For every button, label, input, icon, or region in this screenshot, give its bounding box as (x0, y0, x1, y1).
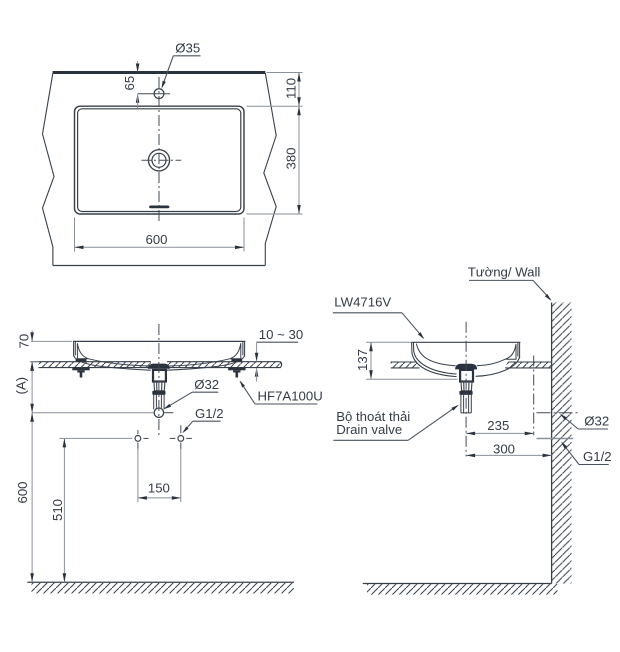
svg-text:110: 110 (284, 78, 299, 99)
svg-text:600: 600 (145, 232, 167, 247)
wall supply mark G1/2 (537, 438, 574, 440)
side view floor hatch (367, 584, 558, 595)
front view counter top line (30, 361, 280, 363)
side view faucet centerline (533, 356, 535, 436)
label Ø32 (front) leader arrow (162, 404, 171, 411)
svg-text:Ø32: Ø32 (194, 377, 219, 392)
svg-text:G1/2: G1/2 (195, 406, 224, 421)
front view basin left rim end (74, 341, 76, 356)
label HF7A100U text (258, 389, 323, 404)
dimension 600 arrow bottom (front view) (30, 573, 34, 582)
dimension 137 arrow bottom (369, 370, 373, 379)
dimension 65 arrow at counter edge (136, 64, 140, 73)
dimension 150 right extension (180, 448, 182, 502)
dimension 70 tail below (31, 362, 33, 372)
side view basin inner surface left (416, 344, 455, 366)
vertical centerline (top view) (158, 77, 160, 222)
dimension text 235 (487, 418, 509, 433)
front view basin rim top line (73, 340, 245, 342)
dimension 10 ~ 30 arrow top (255, 353, 259, 362)
svg-text:137: 137 (355, 349, 370, 371)
svg-text:Ø32: Ø32 (584, 414, 609, 429)
dimension 380 arrow top (297, 106, 301, 115)
dimension 600 line (top view) (75, 246, 245, 248)
front view left supply hole G1/2 (135, 430, 149, 449)
side view basin right pocket (505, 344, 516, 359)
front view basin right rim end (243, 341, 245, 356)
svg-text:Tường/ Wall: Tường/ Wall (468, 264, 541, 279)
front view left mounting bolt (72, 359, 89, 378)
label G1/2 (front) underline (193, 420, 221, 422)
dimension 600 arrow right (top view) (235, 246, 244, 250)
dimension 150 arrow right (172, 496, 181, 500)
dimension 110 extension line bottom (247, 105, 303, 107)
basin inner outline (top view) (78, 109, 241, 212)
side view basin rim top line (412, 341, 521, 343)
side view basin inner surface right (477, 359, 505, 366)
countertop top edge (top view, heavy line) (53, 71, 266, 74)
label LW4716V text (334, 295, 391, 310)
dimension 510 arrow bottom (63, 573, 67, 582)
overflow slot (top view) (151, 206, 169, 209)
dimension 137 line (370, 342, 372, 379)
dimension 150 arrow left (138, 496, 147, 500)
dimension 300 arrow right (543, 454, 552, 458)
dimension text 380 (284, 147, 299, 169)
countertop bottom edge (top view) (53, 265, 265, 267)
label Ø32 (front) text (194, 377, 219, 392)
side view floor line (363, 583, 552, 585)
counter extension for dimension 70 (30, 361, 38, 363)
dimension 150 line (138, 497, 181, 499)
dimension 510 extension line (59, 437, 132, 439)
label LW4716V underline (333, 312, 402, 314)
dimension 600 left extension (top view) (74, 218, 76, 252)
side view counter bottom line (391, 367, 552, 369)
svg-text:LW4716V: LW4716V (334, 295, 391, 310)
dimension 110 extension line top (267, 72, 303, 74)
dimension 10 ~ 30 text (259, 327, 303, 342)
svg-text:(A): (A) (14, 377, 29, 395)
rim extension line for dimension 70 (31, 340, 72, 342)
label drain valve underline (333, 439, 408, 441)
front view drain housing (153, 370, 166, 382)
label LW4716V leader arrow (418, 332, 426, 340)
drain horizontal centerline (top view) (142, 159, 182, 161)
dimension text 70 (17, 334, 32, 349)
front view floor line (27, 581, 294, 583)
label Ø35 leader arrow (160, 81, 166, 90)
label Ø32 (front) underline (192, 391, 218, 393)
svg-text:600: 600 (15, 481, 30, 503)
dimension 510 line (63, 438, 65, 582)
wall face line (551, 303, 553, 584)
dimension (A) arrow bottom (30, 404, 34, 413)
dimension 70 tail above (31, 331, 33, 341)
label drain valve leader (408, 406, 457, 441)
front view drain outlet horizontal line (32, 412, 173, 414)
dimension 65 extension tail below faucet line (137, 94, 139, 108)
dimension text (A) (14, 377, 29, 395)
label drain valve leader arrow (451, 403, 460, 410)
front view basin left rim pocket (77, 343, 88, 359)
dimension 137 top extension (366, 341, 412, 343)
label G1/2 (front) leader (184, 421, 193, 432)
svg-text:70: 70 (17, 334, 32, 349)
label Ø32 (front) leader (165, 392, 192, 408)
label HF7A100U leader arrow (238, 379, 245, 387)
front view vertical centerline (158, 324, 160, 437)
front view counter band right end cap (280, 362, 281, 368)
front view basin right rim pocket (230, 343, 241, 359)
dimension text 600 (front view) (15, 481, 30, 503)
countertop left break line (top view) (43, 73, 55, 266)
svg-text:510: 510 (50, 499, 65, 521)
countertop right break line (top view) (264, 73, 276, 266)
dimension text 600 (top view) (145, 232, 167, 247)
label G1/2 (side) leader arrow (560, 440, 568, 448)
dimension 300 line (466, 454, 551, 456)
dimension 380 arrow bottom (297, 205, 301, 214)
dimension 600 line (front view) (31, 413, 33, 583)
side view drain housing (460, 370, 473, 382)
label Ø32 (side) underline (578, 428, 608, 430)
dimension text 510 (50, 499, 65, 521)
dimension (A) line (31, 362, 33, 413)
dimension (A) arrow top (30, 362, 34, 371)
label Ø35 underline (173, 55, 200, 57)
dimension 235 arrow right (525, 432, 534, 436)
dimension text 65 (122, 76, 137, 91)
dimension 150 left extension (137, 448, 139, 502)
dimension 110 line (298, 73, 300, 107)
drain outer circle (top view) (148, 150, 169, 171)
front view drain taper section (154, 382, 165, 391)
dimension 235 line (466, 432, 534, 434)
side view counter hatch (391, 362, 552, 368)
front view counter bottom line (39, 367, 281, 369)
front view basin right underside curve (167, 356, 245, 371)
label LW4716V leader (402, 313, 423, 338)
label HF7A100U leader (241, 382, 256, 404)
dimension 137 arrow top (369, 342, 373, 351)
dimension 235 arrow left (466, 432, 475, 436)
wall drain outlet mark Ø32 (537, 412, 579, 414)
faucet hole horizontal centerline (top view) (138, 93, 171, 95)
front view drain outlet circle Ø32 (154, 408, 163, 417)
side view drain pop-up cap (456, 364, 477, 369)
front view drain tailpiece (154, 395, 164, 409)
dimension 65 arrow at faucet center (136, 94, 140, 103)
dimension text 137 (355, 349, 370, 371)
label Ø35 leader (162, 56, 173, 86)
dimension 70 arrow top (30, 332, 34, 341)
dimension 510 arrow top (63, 438, 67, 447)
label Tuong/Wall underline (469, 279, 533, 281)
svg-text:Ø35: Ø35 (175, 40, 200, 55)
front view floor hatch (32, 583, 294, 594)
svg-text:300: 300 (493, 442, 515, 457)
dimension 600 right extension (top view) (243, 218, 245, 252)
side view drain lock nut (459, 391, 472, 395)
label G1/2 (front) text (195, 406, 224, 421)
svg-text:Drain valve: Drain valve (336, 422, 402, 437)
dimension 380 extension line bottom (247, 213, 303, 215)
dimension 65 extension tail above counter edge (137, 61, 139, 72)
faucet hole circle (top view) (154, 89, 164, 99)
dimension 10 ~ 30 underline (257, 341, 299, 343)
label Tuong/Wall leader (533, 280, 551, 299)
label Bo thoat thai text (336, 409, 410, 424)
wall hatch (552, 303, 572, 584)
front view right supply hole G1/2 (170, 425, 192, 449)
side view basin right end (518, 342, 520, 358)
label G1/2 (side) leader (562, 443, 579, 465)
dimension 110 arrow bottom (297, 97, 301, 106)
dimension 300 arrow left (466, 454, 475, 458)
svg-text:10 ~ 30: 10 ~ 30 (259, 327, 303, 342)
dimension text 110 (284, 78, 299, 99)
svg-text:HF7A100U: HF7A100U (258, 389, 323, 404)
svg-text:150: 150 (148, 480, 170, 495)
front view basin right inner-surface curve (169, 359, 230, 366)
dimension 10 ~ 30 vertical line upper (256, 342, 258, 356)
dimension 380 line (298, 106, 300, 214)
front view counter hatch (39, 362, 281, 368)
side view drain taper section (461, 382, 472, 391)
dimension text 150 (148, 480, 170, 495)
side view vertical centerline (465, 322, 467, 457)
dimension 137 bottom extension (366, 378, 458, 380)
svg-text:G1/2: G1/2 (583, 449, 612, 464)
side view basin underside right (476, 357, 520, 377)
label Drain valve text (336, 422, 402, 437)
svg-text:65: 65 (122, 76, 137, 91)
side view counter top line (391, 361, 552, 363)
basin outer outline (top view) (75, 106, 245, 214)
dimension 600 arrow left (top view) (75, 246, 84, 250)
front view drain pop-up cap (148, 364, 169, 368)
front view right mounting bolt HF7A100U (228, 359, 245, 378)
dimension text 300 (493, 442, 515, 457)
label G1/2 (front) leader arrow (181, 427, 188, 435)
label G1/2 (side) underline (579, 464, 609, 466)
label HF7A100U underline (255, 403, 317, 405)
front view basin left inner-surface curve (89, 359, 149, 366)
side view basin left end (412, 342, 457, 376)
label Ø32 (side) leader arrow (559, 412, 567, 420)
dimension 110 arrow top (297, 73, 301, 82)
svg-text:235: 235 (487, 418, 509, 433)
label Tuong/Wall leader arrow (545, 294, 553, 302)
label Ø35 text (175, 40, 200, 55)
label Tuong/Wall text (468, 264, 541, 279)
label Ø32 (side) leader (561, 415, 578, 429)
label G1/2 (side) text (583, 449, 612, 464)
drain inner circle (top view) (152, 153, 166, 167)
dimension 600 arrow top (front view) (30, 413, 34, 422)
front view basin left underside curve (74, 356, 151, 371)
front view drain lock nut (152, 391, 165, 395)
label Ø32 (side) text (584, 414, 609, 429)
dimension 10 ~ 30 arrow bottom (255, 368, 259, 377)
dimension 10 ~ 30 vertical line lower (256, 368, 258, 381)
svg-text:380: 380 (284, 147, 299, 169)
side view drain tailpiece (461, 395, 471, 413)
dimension 70 arrow bottom (30, 362, 34, 371)
